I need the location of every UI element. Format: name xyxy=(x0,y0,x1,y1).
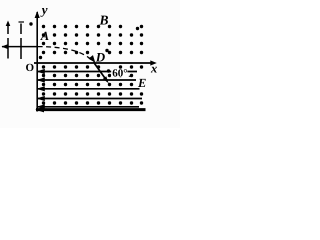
svg-text:E: E xyxy=(137,76,146,90)
svg-text:y: y xyxy=(40,2,48,17)
svg-text:O: O xyxy=(26,62,35,74)
svg-text:D: D xyxy=(95,50,106,65)
svg-text:60°: 60° xyxy=(112,68,127,80)
svg-text:B: B xyxy=(99,13,109,28)
svg-text:x: x xyxy=(150,61,157,75)
svg-text:A: A xyxy=(40,29,49,43)
